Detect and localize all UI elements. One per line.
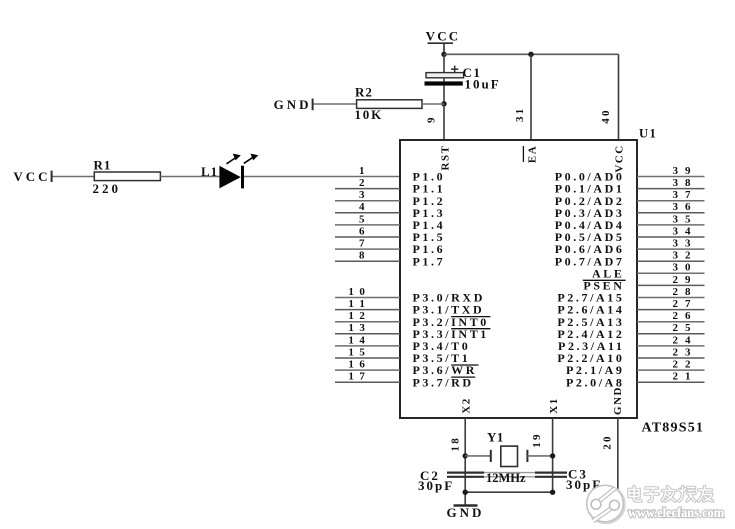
svg-text:2: 2 — [673, 359, 679, 371]
svg-text:10uF: 10uF — [465, 77, 501, 92]
svg-text:2: 2 — [673, 298, 679, 310]
svg-text:1: 1 — [359, 298, 365, 310]
svg-text:2: 2 — [673, 334, 679, 346]
svg-text:2: 2 — [673, 322, 679, 334]
IC pin name EA (overline) — [523, 145, 538, 163]
pin number 8 — [359, 250, 365, 262]
IC pin label P2.7/A15 — [557, 291, 624, 305]
power symbol GND (bottom) — [447, 505, 485, 520]
wire LED cathode to pin 1 — [244, 176, 400, 178]
IC pin label ALE — [592, 266, 624, 280]
svg-text:8: 8 — [685, 286, 691, 298]
wire pin 24 stub — [637, 345, 705, 347]
IC pin label P0.1/AD1 — [555, 182, 625, 196]
power symbol VCC (left) — [13, 169, 51, 184]
node junction C1/R2/RST — [441, 101, 446, 106]
wire bottom GND rail — [465, 491, 554, 493]
IC pin label P1.5 — [413, 230, 446, 244]
IC pin label P2.2/A10 — [557, 351, 624, 365]
svg-text:P1.7: P1.7 — [413, 254, 446, 268]
wire C1 inter-plate segment — [443, 78, 445, 82]
wire plate rail upper — [484, 472, 567, 474]
svg-text:5: 5 — [685, 213, 691, 225]
wire VCC symbol to node — [443, 43, 445, 54]
svg-text:3: 3 — [673, 177, 679, 189]
svg-text:4: 4 — [685, 225, 691, 237]
IC pin label P0.4/AD4 — [555, 218, 625, 232]
wire pin 33 stub — [637, 248, 705, 250]
svg-text:220: 220 — [93, 181, 122, 196]
wire GND tick to R2 — [314, 103, 357, 105]
pin number 21 — [673, 371, 691, 383]
pin number 40 (VCC) — [600, 108, 612, 123]
wire pin 38 stub — [637, 188, 705, 190]
pin number 23 — [673, 346, 691, 358]
svg-text:4: 4 — [685, 334, 691, 346]
resistor R2 designator — [355, 85, 373, 100]
pin number 26 — [673, 310, 691, 322]
svg-text:30pF: 30pF — [418, 478, 454, 493]
wire pin 11 stub — [335, 309, 400, 311]
wire pin 23 stub — [637, 357, 705, 359]
svg-text:20: 20 — [601, 434, 613, 449]
resistor R2 value 10K — [355, 107, 384, 122]
pin number 7 — [359, 238, 365, 250]
power symbol GND (left of R2) — [274, 97, 313, 112]
svg-text:10K: 10K — [355, 107, 384, 122]
IC pin label P0.2/AD2 — [555, 194, 625, 208]
wire pin 4 stub — [335, 212, 400, 214]
pin number 39 — [673, 165, 691, 177]
pin number 29 — [673, 274, 691, 286]
svg-text:R1: R1 — [94, 158, 112, 173]
crystal Y1 body — [501, 446, 518, 466]
wire pin 6 stub — [335, 236, 400, 238]
wire pin 7 stub — [335, 248, 400, 250]
wire pin 17 stub — [335, 381, 400, 383]
IC pin label PSEN (overline) — [583, 279, 626, 293]
wire pin 18 X2 down — [464, 418, 466, 505]
wire pin 35 stub — [637, 224, 705, 226]
svg-text:3: 3 — [685, 238, 691, 250]
svg-text:19: 19 — [531, 432, 543, 447]
pin number 4 — [359, 201, 365, 213]
wire pin 14 stub — [335, 345, 400, 347]
node junction C3 bottom — [550, 490, 555, 495]
svg-text:1: 1 — [348, 371, 354, 383]
svg-text:1: 1 — [348, 286, 354, 298]
capacitor C2 designator — [420, 468, 440, 483]
svg-text:2: 2 — [673, 286, 679, 298]
svg-text:4: 4 — [359, 201, 365, 213]
IC pin label P0.7/AD7 — [555, 254, 625, 268]
pin number 22 — [673, 359, 691, 371]
LED L1 triangle — [219, 166, 240, 189]
pin number 30 — [673, 262, 691, 274]
pin number 28 — [673, 286, 691, 298]
IC pin label P0.6/AD6 — [555, 242, 625, 256]
crystal Y1 designator — [487, 430, 504, 445]
svg-text:EA: EA — [526, 145, 538, 163]
svg-text:www.elecfans.com: www.elecfans.com — [628, 506, 724, 521]
capacitor C3 value 30pF — [566, 477, 602, 492]
IC pin name GND (pin20) — [612, 386, 624, 415]
IC pin name X1 — [548, 397, 560, 413]
wire pin 21 stub — [637, 381, 705, 383]
svg-text:2: 2 — [673, 310, 679, 322]
node junction X2/crystal — [463, 453, 468, 458]
IC pin label P3.2/INT0 (overline) — [413, 315, 491, 329]
wire plate rail lower — [484, 476, 567, 478]
svg-text:1: 1 — [685, 371, 691, 383]
wire pin 15 stub — [335, 357, 400, 359]
svg-text:7: 7 — [359, 238, 365, 250]
wire VCC tick to R1 — [53, 176, 95, 178]
svg-text:2: 2 — [359, 310, 365, 322]
svg-text:6: 6 — [359, 359, 365, 371]
wire X2 to crystal — [465, 455, 490, 457]
pin number 31 (EA) — [514, 107, 526, 122]
IC pin label P1.6 — [413, 242, 446, 256]
LED L1 designator — [201, 164, 218, 179]
wire R2 node down to pin 9 RST — [443, 104, 445, 140]
IC pin label P1.0 — [413, 170, 446, 184]
svg-text:7: 7 — [359, 371, 365, 383]
pin number 24 — [673, 334, 691, 346]
IC part number AT89S51 — [642, 421, 705, 436]
svg-text:3: 3 — [359, 189, 365, 201]
wire pin 22 stub — [637, 369, 705, 371]
capacitor C1 plus sign — [451, 66, 458, 73]
svg-text:7: 7 — [685, 298, 691, 310]
wire pin 32 stub — [637, 260, 705, 262]
IC pin label P2.0/A8 — [566, 375, 625, 389]
IC pin label P2.4/A12 — [557, 327, 624, 341]
watermark text elecfans (stylized) — [629, 487, 713, 502]
svg-text:1: 1 — [348, 359, 354, 371]
wire pin 39 stub — [637, 176, 705, 178]
pin number 34 — [673, 225, 691, 237]
wire pin 8 stub — [335, 260, 400, 262]
node junction X1/crystal — [550, 453, 555, 458]
svg-text:2: 2 — [673, 274, 679, 286]
wire pin 27 stub — [637, 309, 705, 311]
svg-text:X2: X2 — [460, 397, 472, 413]
IC U1 AT89S51 body — [400, 140, 637, 418]
svg-text:0: 0 — [685, 262, 691, 274]
svg-text:3: 3 — [673, 213, 679, 225]
capacitor C3 designator — [568, 467, 588, 482]
svg-text:3: 3 — [673, 165, 679, 177]
svg-text:1: 1 — [348, 310, 354, 322]
svg-text:8: 8 — [685, 177, 691, 189]
wire pin 37 stub — [637, 200, 705, 202]
capacitor C2 plates — [447, 473, 484, 477]
svg-text:1: 1 — [359, 165, 365, 177]
crystal value 12MHz — [486, 471, 526, 485]
IC pin label P3.6/WR (overline) — [413, 363, 479, 377]
node junction VCC rail — [441, 52, 446, 57]
svg-text:1: 1 — [348, 322, 354, 334]
IC pin label P3.4/T0 — [413, 339, 471, 353]
svg-text:Y1: Y1 — [487, 430, 504, 445]
pin number 9 (RST) — [426, 116, 438, 123]
watermark logo circle — [587, 485, 625, 523]
pin number 32 — [673, 250, 691, 262]
svg-text:2: 2 — [685, 250, 691, 262]
svg-text:GND: GND — [612, 386, 624, 415]
svg-text:GND: GND — [447, 505, 485, 520]
svg-text:6: 6 — [359, 225, 365, 237]
svg-text:U1: U1 — [639, 127, 657, 141]
svg-text:5: 5 — [685, 322, 691, 334]
wire pin 3 stub — [335, 200, 400, 202]
wire pin 34 stub — [637, 236, 705, 238]
IC U1 designator — [639, 127, 657, 141]
pin number 19 — [531, 432, 543, 447]
svg-text:3: 3 — [673, 238, 679, 250]
IC pin label P1.4 — [413, 218, 446, 232]
wire pin 36 stub — [637, 212, 705, 214]
IC pin label P3.7/RD (overline) — [413, 375, 476, 389]
svg-text:VCC: VCC — [614, 144, 626, 172]
svg-text:GND: GND — [274, 97, 312, 112]
IC pin label P3.1/TXD — [413, 303, 485, 317]
svg-text:2: 2 — [673, 346, 679, 358]
svg-text:7: 7 — [685, 189, 691, 201]
pin number 13 — [348, 322, 365, 334]
wire R2 to node — [422, 103, 444, 105]
svg-text:3: 3 — [673, 250, 679, 262]
wire pin 29 stub — [637, 284, 705, 286]
pin number 6 — [359, 225, 365, 237]
svg-text:18: 18 — [450, 436, 462, 451]
svg-text:3: 3 — [359, 322, 365, 334]
svg-text:3: 3 — [673, 225, 679, 237]
IC pin name X2 — [460, 397, 472, 413]
svg-text:9: 9 — [685, 165, 691, 177]
wire pin 20 GND down — [617, 418, 619, 489]
resistor R1 body — [94, 172, 160, 181]
IC pin label P3.3/INT1 (overline) — [413, 327, 491, 341]
capacitor C1 value 10uF — [465, 77, 501, 92]
wire pin 5 stub — [335, 224, 400, 226]
svg-text:RST: RST — [439, 145, 451, 171]
wire pin 10 stub — [335, 297, 400, 299]
wire pin 30 stub — [637, 272, 705, 274]
pin number 2 — [359, 177, 365, 189]
pin number 18 — [450, 436, 462, 451]
wire pin 13 stub — [335, 333, 400, 335]
IC pin label P0.0/AD0 — [555, 170, 625, 184]
IC pin label P3.5/T1 — [413, 351, 471, 365]
LED L1 cathode bar — [241, 166, 244, 189]
IC pin label P0.5/AD5 — [555, 230, 625, 244]
IC pin label P1.1 — [413, 182, 446, 196]
IC pin name VCC (pin40) — [614, 144, 626, 172]
pin number 3 — [359, 189, 365, 201]
pin number 35 — [673, 213, 691, 225]
IC pin label P2.3/A11 — [558, 339, 624, 353]
power symbol VCC (top) — [426, 29, 461, 44]
pin number 25 — [673, 322, 691, 334]
wire R1 to LED anode — [160, 176, 219, 178]
pin number 16 — [348, 359, 365, 371]
wire pin 12 stub — [335, 321, 400, 323]
IC pin label P1.2 — [413, 194, 446, 208]
resistor R1 value 220 — [93, 181, 122, 196]
wire pin 16 stub — [335, 369, 400, 371]
IC pin label P2.1/A9 — [566, 363, 625, 377]
svg-text:L1: L1 — [201, 164, 218, 179]
svg-text:X1: X1 — [548, 397, 560, 413]
wire top VCC rail — [444, 53, 619, 55]
pin number 15 — [348, 346, 365, 358]
wire C1 to R2 node — [443, 86, 445, 104]
svg-text:3: 3 — [673, 189, 679, 201]
svg-text:R2: R2 — [355, 85, 373, 100]
IC pin name RST — [439, 145, 451, 171]
crystal Y1 left electrode — [490, 450, 492, 462]
pin number 27 — [673, 298, 691, 310]
IC pin label P1.3 — [413, 206, 446, 220]
svg-text:0: 0 — [359, 286, 365, 298]
capacitor C1 bottom plate — [425, 81, 463, 85]
pin number 20 — [601, 434, 613, 449]
wire VCC rail down to pin 40 — [618, 54, 620, 140]
resistor R2 body — [357, 100, 422, 109]
node junction C2 bottom — [463, 490, 468, 495]
svg-text:1: 1 — [348, 298, 354, 310]
svg-text:VCC: VCC — [13, 169, 50, 184]
wire pin 25 stub — [637, 333, 705, 335]
watermark url www.elecfans.com — [628, 506, 724, 521]
capacitor C3 plates — [535, 473, 567, 477]
svg-text:3: 3 — [685, 346, 691, 358]
IC pin label P0.3/AD3 — [555, 206, 625, 220]
wire pin 28 stub — [637, 297, 705, 299]
svg-text:3: 3 — [673, 262, 679, 274]
svg-text:2: 2 — [685, 359, 691, 371]
pin number 14 — [348, 334, 365, 346]
pin number 12 — [348, 310, 365, 322]
pin number 33 — [673, 238, 691, 250]
wire pin 19 X1 down — [552, 418, 554, 492]
wire pin 2 stub — [335, 188, 400, 190]
IC pin label P2.6/A14 — [557, 303, 624, 317]
svg-text:9: 9 — [426, 116, 438, 123]
svg-text:VCC: VCC — [426, 29, 461, 44]
pin number 10 — [348, 286, 365, 298]
wire VCC node down to C1 — [443, 54, 445, 72]
LED L1 emission arrow 2 — [244, 154, 259, 164]
IC pin label P2.5/A13 — [557, 315, 624, 329]
pin number 1 — [359, 165, 365, 177]
pin number 36 — [673, 201, 691, 213]
svg-text:9: 9 — [685, 274, 691, 286]
capacitor C2 value 30pF — [418, 478, 454, 493]
pin number 37 — [673, 189, 691, 201]
wire crystal to X1 — [527, 455, 552, 457]
svg-text:2: 2 — [673, 371, 679, 383]
svg-text:12MHz: 12MHz — [486, 471, 526, 485]
pin number 38 — [673, 177, 691, 189]
svg-text:8: 8 — [359, 250, 365, 262]
svg-text:3: 3 — [673, 201, 679, 213]
IC pin label P3.0/RXD — [413, 291, 485, 305]
svg-text:5: 5 — [359, 213, 365, 225]
pin number 17 — [348, 371, 365, 383]
svg-text:1: 1 — [348, 346, 354, 358]
node junction EA branch — [528, 52, 533, 57]
svg-text:1: 1 — [348, 334, 354, 346]
svg-text:AT89S51: AT89S51 — [642, 421, 705, 436]
resistor R1 designator — [94, 158, 112, 173]
svg-text:6: 6 — [685, 310, 691, 322]
svg-text:P2.0/A8: P2.0/A8 — [566, 375, 625, 389]
pin number 5 — [359, 213, 365, 225]
svg-text:4: 4 — [359, 334, 365, 346]
svg-text:31: 31 — [514, 107, 526, 122]
IC pin label P1.7 — [413, 254, 446, 268]
svg-text:5: 5 — [359, 346, 365, 358]
LED L1 emission arrow 1 — [227, 154, 241, 164]
capacitor C1 top plate — [426, 73, 464, 78]
wire pin 26 stub — [637, 321, 705, 323]
svg-text:6: 6 — [685, 201, 691, 213]
wire EA branch down to pin 31 — [530, 54, 532, 140]
svg-text:40: 40 — [600, 108, 612, 123]
capacitor C1 designator — [463, 65, 482, 80]
pin number 11 — [348, 298, 365, 310]
crystal Y1 right electrode — [526, 450, 528, 462]
svg-text:2: 2 — [359, 177, 365, 189]
